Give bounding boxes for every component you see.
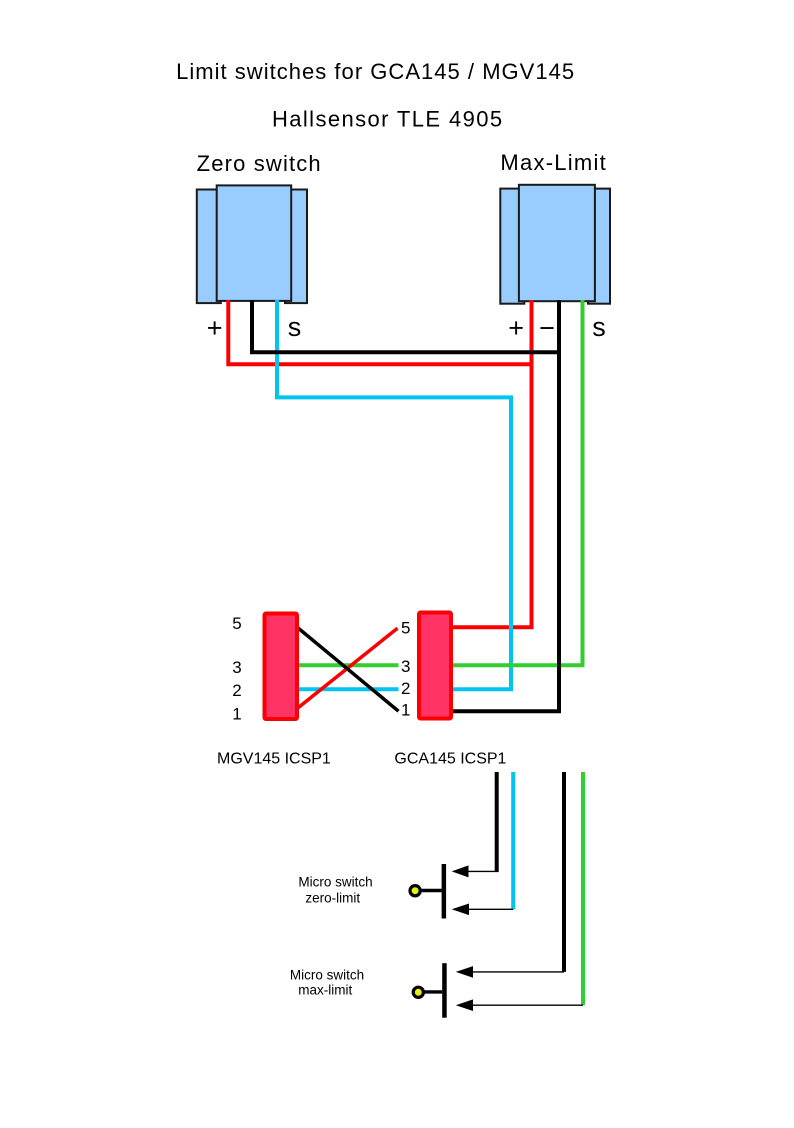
micro switch S1 : actuator circle xyxy=(410,886,420,896)
micro switch S2 : top arrow xyxy=(456,966,473,978)
wire cyan: MGV pin2 stub xyxy=(296,687,399,691)
micro switch S1 : bottom arrow xyxy=(452,904,469,916)
connector MGV145 ICSP1 xyxy=(265,614,298,720)
micro switch S1 : bottom arrow line xyxy=(466,908,513,910)
wire black: zero sensor to max minus rail xyxy=(252,300,559,352)
hall sensor U2 (Max-Limit) xyxy=(500,185,610,304)
svg-text:Hallsensor TLE 4905: Hallsensor TLE 4905 xyxy=(272,107,503,132)
wire red: max sensor plus to GCA pin5 xyxy=(450,300,532,627)
svg-text:GCA145 ICSP1: GCA145 ICSP1 xyxy=(394,751,506,768)
micro switch S2 : actuator circle xyxy=(413,987,423,997)
svg-text:Max-Limit: Max-Limit xyxy=(500,150,607,175)
wire black: lower vertical to max-limit top contact xyxy=(562,772,566,972)
svg-text:+: + xyxy=(508,313,524,343)
svg-text:3: 3 xyxy=(232,658,241,677)
wire green: MGV pin3 stub xyxy=(296,663,399,667)
micro switch S2 max-limit : bar xyxy=(442,963,447,1018)
svg-text:s: s xyxy=(288,312,302,342)
svg-text:3: 3 xyxy=(401,657,410,676)
svg-text:Micro switch: Micro switch xyxy=(298,875,372,890)
micro switch S2 : top arrow line xyxy=(471,971,564,973)
svg-text:5: 5 xyxy=(232,614,241,633)
wire black: max sensor minus to GCA pin1 xyxy=(450,300,559,711)
svg-text:5: 5 xyxy=(401,619,410,638)
svg-text:zero-limit: zero-limit xyxy=(305,890,360,905)
svg-text:2: 2 xyxy=(232,681,241,700)
micro switch S1 : stub xyxy=(419,889,442,892)
micro switch S1 : top arrow xyxy=(452,865,469,877)
micro switch S1 zero-limit : bar xyxy=(442,864,447,919)
wire green: max sensor s to GCA pin3 xyxy=(450,300,583,665)
svg-text:−: − xyxy=(539,313,555,343)
wire black diagonal: MGV pin5 to GCA pin1 xyxy=(297,627,399,711)
wire green: lower vertical to max-limit switch xyxy=(581,772,585,1005)
svg-text:Zero switch: Zero switch xyxy=(197,151,322,176)
svg-text:1: 1 xyxy=(401,700,410,719)
micro switch S2 : bottom arrow xyxy=(456,999,473,1011)
svg-text:+: + xyxy=(207,313,223,343)
svg-text:1: 1 xyxy=(232,705,241,724)
svg-text:max-limit: max-limit xyxy=(298,983,352,998)
wire cyan: zero sensor s to GCA pin2 xyxy=(277,300,511,689)
svg-text:Micro switch: Micro switch xyxy=(290,968,364,983)
svg-text:2: 2 xyxy=(401,679,410,698)
svg-text:s: s xyxy=(592,312,606,342)
wire black: lower vertical to zero-limit top contact xyxy=(495,772,499,872)
wire red: zero sensor plus to max plus rail xyxy=(228,300,531,364)
micro switch S2 : stub xyxy=(423,990,442,993)
wire red diagonal: MGV pin1 to GCA pin5 xyxy=(297,628,398,708)
svg-text:MGV145 ICSP1: MGV145 ICSP1 xyxy=(217,751,331,768)
wire cyan: lower vertical to zero-limit switch xyxy=(511,772,515,909)
svg-text:Limit switches for GCA145 / MG: Limit switches for GCA145 / MGV145 xyxy=(176,59,575,84)
connector GCA145 ICSP1 xyxy=(419,613,451,719)
micro switch S2 : bottom arrow line xyxy=(471,1004,583,1006)
hall sensor U1 (Zero switch) xyxy=(197,185,307,303)
